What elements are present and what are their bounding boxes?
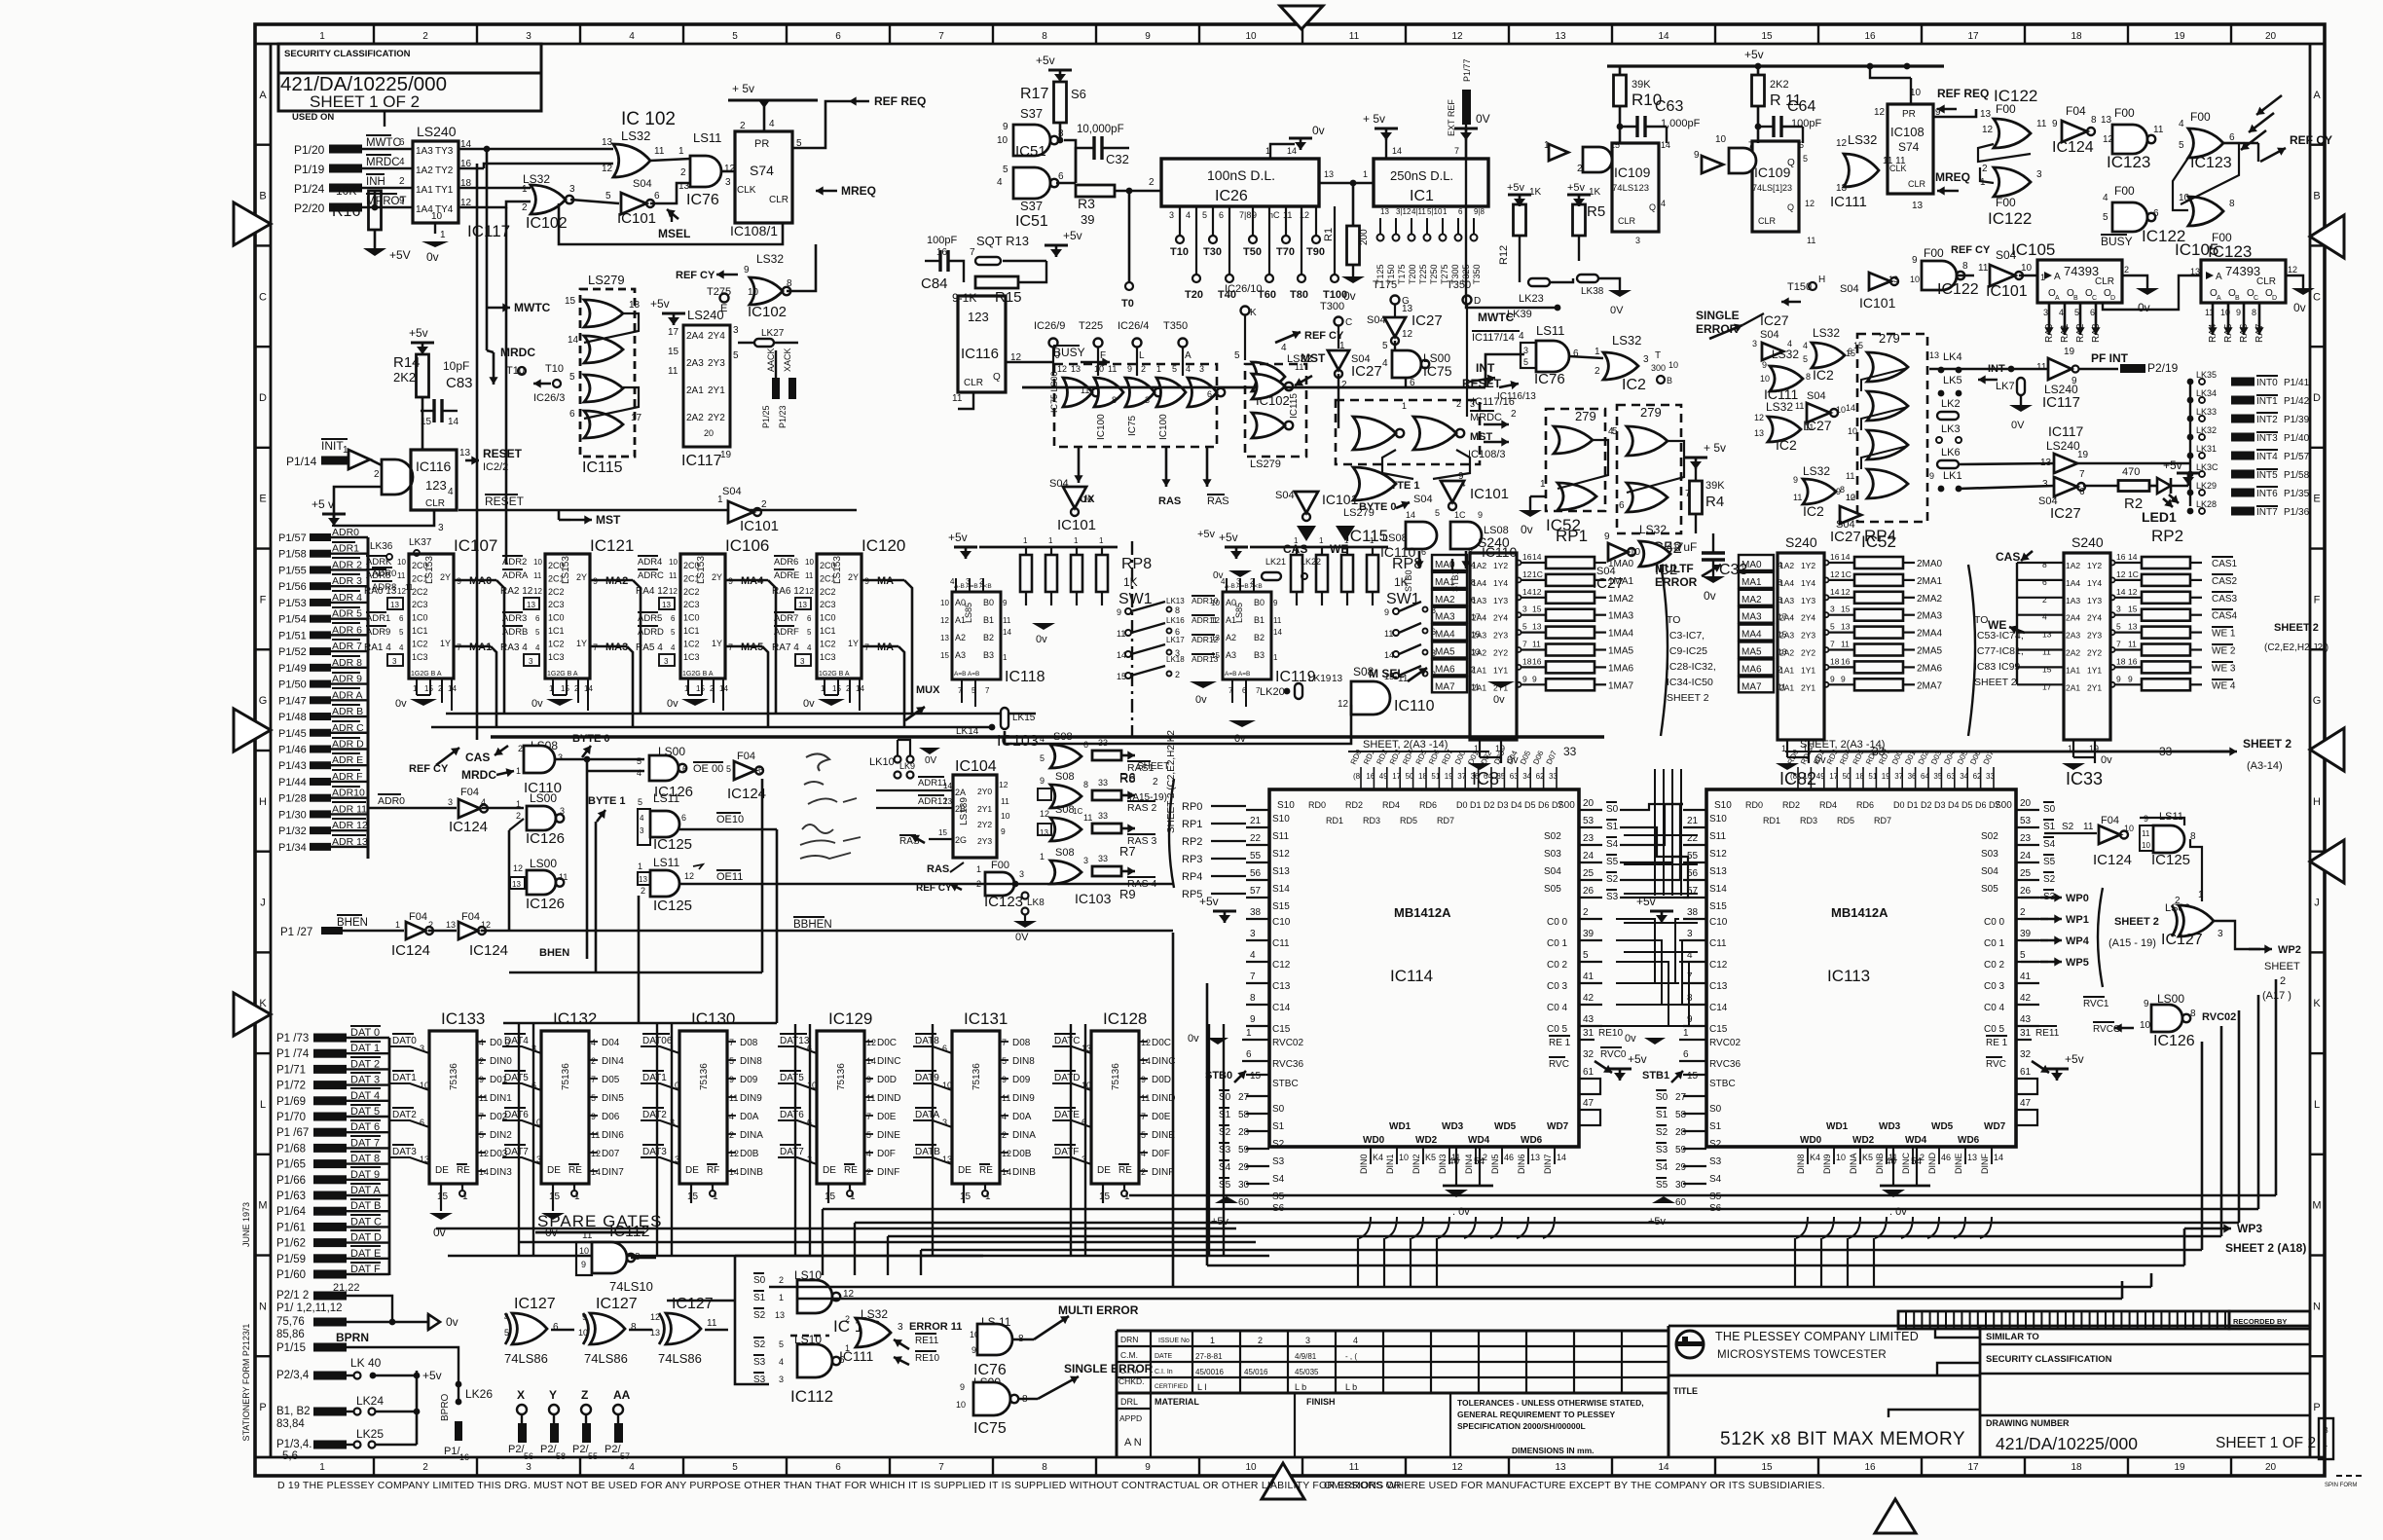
svg-text:S00: S00 (1558, 800, 1575, 811)
svg-text:11: 11 (1117, 629, 1125, 639)
svg-text:9: 9 (479, 1075, 484, 1084)
fold mark triangle right edge row G (2310, 728, 2344, 771)
svg-text:P1/ 1,2,11,12: P1/ 1,2,11,12 (276, 1302, 343, 1314)
svg-text:REF CY: REF CY (676, 270, 715, 281)
svg-text:RP8: RP8 (1392, 556, 1422, 572)
svg-text:S02: S02 (1544, 831, 1561, 842)
svg-text:P1/41: P1/41 (2284, 378, 2310, 388)
svg-text:S5: S5 (1219, 1180, 1231, 1191)
svg-text:DATD: DATD (1054, 1073, 1080, 1083)
link LK23 LK38 LK39 (1528, 278, 1550, 286)
svg-text:1C1: 1C1 (820, 626, 836, 636)
svg-text:SECURITY CLASSIFICATION: SECURITY CLASSIFICATION (1986, 1354, 2112, 1365)
svg-text:WE 3: WE 3 (2212, 663, 2236, 674)
svg-text:MA7: MA7 (1741, 681, 1762, 692)
svg-text:S74: S74 (1898, 140, 1920, 154)
svg-text:RVC0: RVC0 (1600, 1049, 1627, 1060)
svg-text:2: 2 (1149, 177, 1155, 188)
svg-text:P1/36: P1/36 (2284, 507, 2310, 518)
svg-text:MREQ: MREQ (1935, 170, 1970, 184)
svg-text:RP1: RP1 (1182, 819, 1202, 830)
svg-text:1Y: 1Y (712, 639, 722, 648)
svg-text:T225: T225 (1418, 264, 1428, 284)
svg-text:IC117/14: IC117/14 (1472, 332, 1515, 344)
svg-text:DIN7: DIN7 (1543, 1154, 1553, 1174)
svg-text:11: 11 (952, 393, 963, 404)
svg-text:TY3: TY3 (435, 146, 454, 157)
svg-text:6: 6 (535, 614, 540, 623)
svg-text:2: 2 (2042, 595, 2047, 605)
svg-text:2Y2: 2Y2 (708, 413, 725, 423)
svg-text:10,000pF: 10,000pF (1077, 124, 1124, 135)
svg-text:C63: C63 (1655, 98, 1683, 115)
svg-text:IC75: IC75 (973, 1420, 1007, 1437)
svg-text:+5v: +5v (409, 326, 428, 340)
svg-text:200: 200 (1359, 229, 1370, 245)
svg-text:12: 12 (1451, 31, 1463, 42)
svg-text:1K: 1K (1589, 187, 1601, 198)
svg-text:S2: S2 (753, 1310, 766, 1321)
svg-text:S0: S0 (1606, 804, 1619, 815)
svg-text:10: 10 (1715, 134, 1727, 145)
svg-text:MATERIAL: MATERIAL (1155, 1397, 1199, 1407)
svg-text:16: 16 (1830, 552, 1840, 562)
svg-text:P1/43: P1/43 (278, 760, 307, 772)
svg-text:DINF: DINF (1152, 1167, 1174, 1178)
svg-text:18: 18 (2071, 31, 2082, 42)
svg-text:RP0: RP0 (1182, 801, 1202, 813)
svg-text:2C1: 2C1 (683, 573, 700, 583)
svg-text:3: 3 (1635, 236, 1640, 245)
svg-text:58: 58 (1675, 1110, 1687, 1120)
svg-text:1: 1 (1156, 364, 1161, 374)
svg-text:RAS 2: RAS 2 (1127, 802, 1157, 814)
svg-text:1Y: 1Y (440, 639, 451, 648)
svg-text:31: 31 (1583, 1028, 1595, 1039)
svg-text:0v: 0v (1195, 694, 1207, 706)
svg-text:F: F (260, 594, 267, 605)
svg-text:13: 13 (602, 137, 613, 148)
svg-text:B3: B3 (983, 650, 994, 660)
svg-text:1MA2: 1MA2 (1608, 594, 1634, 605)
svg-text:39: 39 (1081, 212, 1094, 227)
svg-text:D5: D5 (1524, 800, 1536, 810)
svg-text:CLR: CLR (1758, 216, 1777, 226)
svg-text:26: 26 (1583, 886, 1595, 897)
svg-text:IC27: IC27 (1760, 312, 1789, 328)
svg-text:T10: T10 (1170, 246, 1189, 258)
svg-text:3: 3 (2043, 308, 2048, 317)
svg-text:S1: S1 (1219, 1110, 1231, 1120)
svg-text:9: 9 (2128, 674, 2133, 683)
svg-text:PF INT: PF INT (2091, 351, 2129, 365)
svg-text:+5 v: +5 v (312, 497, 334, 511)
svg-text:1: 1 (1370, 536, 1375, 545)
svg-text:LK13: LK13 (1166, 597, 1185, 605)
svg-text:D08: D08 (1012, 1038, 1031, 1048)
svg-text:GENERAL REQUIREMENT TO PLESSEY: GENERAL REQUIREMENT TO PLESSEY (1457, 1410, 1615, 1419)
svg-text:C: C (2254, 295, 2258, 302)
svg-text:12: 12 (1211, 616, 1220, 625)
svg-text:14: 14 (1002, 1167, 1011, 1177)
svg-text:S05: S05 (1544, 884, 1561, 895)
svg-text:16: 16 (2116, 552, 2126, 562)
svg-text:F00: F00 (2114, 184, 2135, 198)
svg-text:10: 10 (1399, 1153, 1409, 1162)
svg-text:16: 16 (1532, 656, 1542, 666)
svg-text:IC26: IC26 (1215, 188, 1248, 204)
svg-text:DIN0: DIN0 (490, 1056, 512, 1067)
svg-text:3: 3 (1470, 399, 1475, 409)
svg-text:T30: T30 (1203, 246, 1222, 258)
svg-text:B2: B2 (983, 633, 994, 642)
svg-text:INT4: INT4 (2256, 452, 2278, 462)
svg-text:IC105: IC105 (2011, 240, 2055, 259)
svg-text:M SEL: M SEL (1369, 667, 1405, 680)
svg-text:8: 8 (1471, 577, 1476, 587)
svg-text:2Y3: 2Y3 (1493, 631, 1508, 641)
svg-text:S13: S13 (1709, 866, 1727, 877)
svg-text:2: 2 (591, 1056, 596, 1066)
svg-text:S04: S04 (633, 178, 652, 190)
svg-text:11: 11 (2128, 640, 2137, 649)
svg-text:RD7: RD7 (1874, 816, 1891, 825)
svg-text:RD4: RD4 (1382, 800, 1400, 810)
mux row output arrows (1078, 447, 1081, 483)
svg-text:2Y4: 2Y4 (1493, 613, 1508, 623)
svg-text:S4: S4 (1709, 1174, 1722, 1185)
svg-text:12: 12 (669, 587, 678, 596)
svg-text:IC104: IC104 (955, 758, 997, 775)
svg-text:F04: F04 (460, 787, 479, 798)
svg-text:S04: S04 (1840, 283, 1859, 295)
svg-text:ADRE: ADRE (774, 570, 799, 581)
svg-text:EXT REF: EXT REF (1447, 99, 1456, 136)
svg-text:A2: A2 (955, 633, 966, 642)
svg-text:IC107: IC107 (454, 536, 497, 555)
svg-text:18: 18 (1830, 656, 1840, 666)
svg-text:SHEET 2: SHEET 2 (1667, 692, 1709, 704)
svg-text:1A1: 1A1 (416, 185, 433, 196)
svg-text:S2: S2 (1219, 1127, 1231, 1138)
svg-text:0v: 0v (426, 250, 439, 264)
svg-text:14: 14 (479, 1167, 489, 1177)
svg-text:9: 9 (1604, 532, 1610, 542)
svg-text:H: H (1818, 275, 1825, 285)
svg-text:9: 9 (1836, 487, 1841, 496)
svg-text:11: 11 (1108, 364, 1117, 374)
svg-text:+5v: +5v (1507, 182, 1525, 194)
svg-text:H: H (2313, 796, 2321, 808)
title block outline (1116, 1331, 1118, 1457)
svg-text:20: 20 (1583, 798, 1595, 809)
svg-text:BPRN: BPRN (336, 1331, 369, 1344)
svg-text:2: 2 (1595, 366, 1600, 377)
svg-text:11: 11 (1141, 1093, 1150, 1103)
svg-text:S08: S08 (1055, 804, 1075, 816)
svg-text:1C: 1C (1841, 569, 1851, 579)
svg-text:4: 4 (2103, 193, 2108, 203)
svg-text:ERROR: ERROR (1655, 575, 1698, 589)
svg-text:DATB: DATB (915, 1147, 940, 1157)
svg-text:IC124: IC124 (727, 786, 766, 802)
svg-text:13: 13 (2128, 622, 2138, 632)
svg-text:10: 10 (940, 599, 949, 607)
svg-text:+5v: +5v (1197, 529, 1216, 540)
fold mark triangle left edge row G/H (234, 709, 271, 752)
svg-text:2: 2 (1471, 664, 1476, 674)
svg-text:11: 11 (1778, 681, 1786, 691)
svg-text:(8: (8 (1790, 772, 1798, 781)
svg-text:LS32: LS32 (1772, 348, 1799, 361)
wire 74393 chain (2103, 275, 2201, 310)
svg-text:6: 6 (835, 1462, 841, 1473)
svg-text:IC108/3: IC108/3 (1468, 449, 1506, 460)
svg-text:18: 18 (2116, 656, 2126, 666)
svg-text:421/DA/10225/000: 421/DA/10225/000 (1996, 1434, 2138, 1453)
IC113 +5v at C10 (1650, 910, 1673, 913)
svg-text:123: 123 (968, 310, 989, 324)
svg-text:LK19: LK19 (1308, 674, 1332, 684)
svg-text:14: 14 (1287, 146, 1297, 156)
svg-text:4: 4 (1778, 560, 1782, 569)
svg-text:250nS D.L.: 250nS D.L. (1390, 168, 1453, 183)
svg-text:3: 3 (1199, 364, 1204, 374)
svg-text:S03: S03 (1981, 849, 1998, 860)
svg-text:16: 16 (2128, 656, 2138, 666)
svg-text:6: 6 (1058, 171, 1064, 182)
vertical wire to MWTC arrow (486, 149, 489, 308)
ground 0v below IC117 (434, 223, 436, 234)
svg-text:2Y1: 2Y1 (1493, 682, 1508, 692)
svg-text:2A1: 2A1 (2066, 682, 2080, 692)
svg-text:P1/70: P1/70 (276, 1112, 306, 1123)
svg-text:IC124: IC124 (391, 942, 430, 959)
svg-text:LK21: LK21 (1265, 557, 1286, 567)
svg-text:2A3: 2A3 (2066, 631, 2080, 641)
svg-text:4: 4 (2179, 119, 2184, 129)
svg-text:T225: T225 (1079, 320, 1103, 332)
svg-text:IC117: IC117 (681, 453, 722, 469)
svg-text:S4: S4 (1656, 1162, 1668, 1173)
svg-text:15: 15 (549, 1192, 561, 1202)
svg-text:P1/51: P1/51 (278, 630, 307, 642)
svg-text:9|8: 9|8 (1474, 207, 1485, 216)
svg-text:WD2: WD2 (1415, 1135, 1438, 1146)
svg-text:IC110: IC110 (1394, 698, 1435, 715)
svg-text:1: 1 (1040, 852, 1045, 862)
svg-text:A=B A=B: A=B A=B (954, 671, 979, 678)
drawing number box sheet 1 of 2 (278, 73, 541, 111)
svg-text:4: 4 (591, 1038, 596, 1047)
svg-text:8: 8 (2091, 115, 2097, 126)
svg-text:IC127: IC127 (596, 1296, 638, 1312)
svg-text:LK7: LK7 (1996, 381, 2015, 392)
svg-text:IC26/9: IC26/9 (1034, 320, 1065, 332)
svg-text:39: 39 (2020, 929, 2032, 939)
svg-text:DIN7: DIN7 (602, 1167, 624, 1178)
svg-text:LK24: LK24 (356, 1394, 384, 1408)
svg-text:S4: S4 (1606, 839, 1619, 850)
svg-text:WD0: WD0 (1800, 1135, 1822, 1146)
svg-text:4: 4 (1040, 734, 1045, 744)
IC82 output pins to resistor pack RP4 (1824, 561, 1829, 566)
svg-text:SW1: SW1 (1118, 591, 1153, 607)
svg-text:RP1: RP1 (1556, 527, 1588, 545)
svg-text:C.I. In: C.I. In (1155, 1369, 1173, 1375)
svg-text:1G2G B A: 1G2G B A (682, 671, 714, 678)
svg-text:1A3: 1A3 (416, 146, 433, 157)
svg-text:S14: S14 (1709, 884, 1727, 895)
svg-text:3: 3 (733, 325, 739, 336)
svg-text:9: 9 (729, 1075, 734, 1084)
latch LS279 IC115 left (580, 289, 635, 457)
svg-text:LK5: LK5 (1943, 375, 1962, 386)
svg-text:27: 27 (1238, 1092, 1250, 1103)
svg-text:THE PLESSEY COMPANY LIMITED: THE PLESSEY COMPANY LIMITED (1715, 1330, 1919, 1343)
oe return wires (509, 972, 762, 974)
svg-text:DAT4: DAT4 (504, 1036, 529, 1046)
svg-text:7: 7 (591, 1075, 596, 1084)
svg-text:5: 5 (726, 764, 731, 774)
svg-text:4: 4 (479, 1038, 484, 1047)
svg-text:WE 4: WE 4 (2212, 680, 2236, 691)
svg-text:15: 15 (1846, 348, 1855, 358)
svg-text:17: 17 (631, 413, 642, 423)
svg-text:19: 19 (2174, 31, 2185, 42)
svg-text:2Y3: 2Y3 (977, 836, 992, 846)
svg-text:10: 10 (579, 1246, 589, 1256)
svg-text:1C3: 1C3 (412, 652, 428, 662)
svg-text:DAT3: DAT3 (642, 1147, 667, 1157)
address bus vertical (367, 537, 370, 859)
svg-text:3: 3 (392, 657, 397, 666)
svg-text:75,76: 75,76 (276, 1316, 305, 1328)
svg-text:CLR: CLR (964, 378, 983, 388)
svg-text:WP1: WP1 (2066, 914, 2089, 926)
svg-text:C14: C14 (1709, 1003, 1728, 1013)
svg-text:2Y1: 2Y1 (1801, 682, 1815, 692)
fold mark triangle left edge row K (234, 993, 271, 1036)
svg-text:10: 10 (1094, 364, 1104, 374)
svg-text:A: A (2217, 295, 2221, 302)
svg-text:11: 11 (1846, 471, 1854, 481)
svg-text:INT6: INT6 (2256, 489, 2278, 499)
svg-text:Q: Q (1787, 202, 1794, 212)
svg-text:10: 10 (2124, 824, 2134, 833)
svg-text:11: 11 (669, 571, 678, 580)
svg-text:S1: S1 (753, 1293, 766, 1303)
svg-text:IC127: IC127 (514, 1296, 556, 1312)
svg-text:9-1K: 9-1K (952, 291, 976, 305)
svg-text:S240: S240 (1478, 534, 1510, 550)
svg-text:4: 4 (535, 643, 540, 652)
svg-text:DIN6: DIN6 (602, 1130, 624, 1141)
mux output trunk wires (446, 713, 1036, 715)
svg-text:B1: B1 (983, 615, 994, 625)
svg-text:T90: T90 (1306, 246, 1325, 258)
svg-text:A-B A=B A<B: A-B A=B A<B (1225, 583, 1263, 590)
IC113 0v at RVC02 (1644, 1038, 1666, 1045)
svg-text:P2/: P2/ (572, 1444, 589, 1455)
svg-text:S2: S2 (2062, 822, 2074, 832)
svg-text:3: 3 (526, 31, 532, 42)
latch 279 IC52 dashed box right (1617, 405, 1681, 533)
svg-text:21: 21 (1687, 816, 1699, 826)
svg-text:C14: C14 (1272, 1003, 1291, 1013)
svg-text:1: 1 (1294, 536, 1299, 545)
svg-text:DAT0: DAT0 (392, 1036, 417, 1046)
svg-text:10: 10 (1245, 1462, 1257, 1473)
svg-text:IC123: IC123 (2107, 153, 2150, 171)
data bus vertical (388, 1038, 391, 1275)
svg-text:WD6: WD6 (1521, 1135, 1543, 1146)
svg-text:S1: S1 (1656, 1110, 1668, 1120)
svg-text:IC123: IC123 (984, 894, 1023, 910)
svg-text:11: 11 (1978, 263, 1989, 274)
svg-text:2: 2 (729, 1130, 734, 1140)
svg-text:F: F (2314, 594, 2321, 605)
svg-text:1: 1 (2324, 1440, 2328, 1448)
svg-text:1MA5: 1MA5 (1608, 646, 1634, 657)
svg-text:3: 3 (2036, 169, 2042, 180)
svg-text:(8: (8 (1353, 772, 1361, 781)
svg-text:K4: K4 (1810, 1153, 1820, 1162)
svg-text:+5v: +5v (1628, 1052, 1647, 1066)
svg-text:9: 9 (744, 265, 750, 275)
svg-text:RP5: RP5 (1182, 889, 1202, 900)
svg-text:17: 17 (2042, 681, 2052, 691)
svg-text:1MA7: 1MA7 (1608, 680, 1634, 691)
+5v at R13 (1045, 244, 1068, 247)
svg-text:IC123: IC123 (2190, 155, 2232, 171)
svg-text:2C3: 2C3 (412, 600, 428, 609)
svg-text:RE: RE (568, 1165, 582, 1176)
svg-text:RA3 4: RA3 4 (500, 642, 528, 653)
svg-text:D0C: D0C (1152, 1038, 1171, 1048)
svg-text:1C2: 1C2 (820, 639, 836, 648)
svg-text:C10: C10 (1709, 917, 1728, 928)
memory IC114 MB1412A box (1269, 789, 1579, 1147)
svg-text:3: 3 (2042, 479, 2048, 490)
svg-text:TO: TO (1974, 614, 1988, 626)
svg-text:LS00: LS00 (530, 857, 557, 870)
long trunk wire y398 (1022, 386, 1485, 389)
svg-text:C0 2: C0 2 (1984, 960, 2005, 971)
svg-text:4: 4 (729, 1112, 734, 1121)
svg-text:SHEET: SHEET (2264, 961, 2300, 972)
svg-text:IC34-IC50: IC34-IC50 (1667, 677, 1713, 688)
svg-text:29: 29 (1675, 1162, 1687, 1173)
svg-text:16: 16 (1841, 656, 1851, 666)
svg-text:6: 6 (1207, 389, 1212, 399)
svg-text:MA0: MA0 (1741, 560, 1762, 570)
svg-text:2Y1: 2Y1 (708, 385, 725, 396)
svg-text:S04: S04 (1275, 490, 1295, 501)
inverter IC101 S04 (570, 200, 619, 203)
svg-text:DIN0: DIN0 (1359, 1154, 1369, 1174)
svg-text:WD6: WD6 (1958, 1135, 1980, 1146)
svg-text:P1/60: P1/60 (276, 1269, 306, 1281)
svg-text:1: 1 (1099, 536, 1104, 545)
svg-text:1A2: 1A2 (416, 165, 433, 176)
svg-text:3: 3 (898, 1322, 903, 1333)
svg-text:D0F: D0F (1152, 1149, 1170, 1159)
svg-text:DAT2: DAT2 (392, 1110, 417, 1120)
svg-text:10K: 10K (336, 184, 356, 198)
svg-text:8: 8 (1250, 993, 1256, 1004)
svg-text:1MA1: 1MA1 (1608, 576, 1634, 587)
